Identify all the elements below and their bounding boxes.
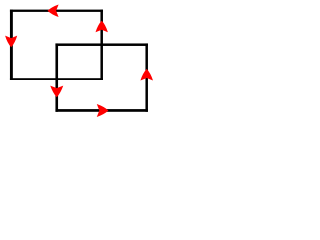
- contour A left edge: [10, 10, 13, 80]
- arrow down-pointing on left edge of A: [5, 36, 17, 48]
- arrow up-pointing on right edge of B: [140, 69, 153, 81]
- contour B top edge: [55, 43, 148, 46]
- contour A right edge: [100, 10, 103, 80]
- contour B bottom edge: [55, 109, 148, 112]
- contour A top edge: [10, 10, 103, 12]
- arrow left-pointing on top edge of A: [48, 4, 59, 17]
- arrow up-pointing on right edge of A: [96, 21, 108, 33]
- contour B left edge: [55, 43, 58, 111]
- contour B right edge: [145, 43, 148, 111]
- arrow down-pointing on left edge of B: [50, 86, 63, 98]
- contour A bottom edge: [10, 78, 103, 80]
- arrow right-pointing on bottom edge of B: [97, 104, 109, 117]
